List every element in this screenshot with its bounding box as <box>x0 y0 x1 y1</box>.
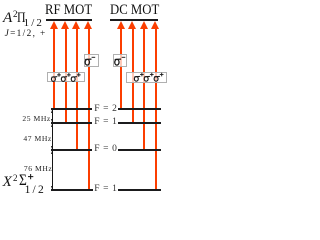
RF laser arrow 1 head <box>50 21 58 29</box>
ground level F=1 lower right segment <box>118 189 161 191</box>
DC laser arrow 2 shaft (to F=1 upper) <box>132 27 134 123</box>
ground level F=1 upper left segment <box>51 122 92 124</box>
RF laser arrow 3 shaft (to F=0) <box>76 27 78 150</box>
47 MHz label <box>5 135 52 143</box>
DC MOT header <box>110 2 159 17</box>
RF laser arrow 1 shaft (to F=2) <box>53 27 55 109</box>
J quantum number label <box>5 30 47 39</box>
ground level F=0 right segment <box>118 149 161 151</box>
label F=2 <box>94 105 117 115</box>
25 MHz label <box>4 115 51 123</box>
RF sigma-minus polarization box <box>84 54 99 67</box>
76 MHz splitting double arrow <box>52 151 53 189</box>
excited state label A 2Pi 1/2 <box>3 10 12 25</box>
label F=1 lower <box>94 185 117 195</box>
ground level F=2 left segment <box>51 108 92 110</box>
DC laser arrow 4 head <box>151 21 159 29</box>
RF laser arrow 4 head <box>84 21 92 29</box>
excited level line (DC) <box>110 19 158 21</box>
RF laser arrow 2 shaft (to F=1 upper) <box>65 27 67 123</box>
label F=0 <box>94 145 117 155</box>
47 MHz splitting double arrow <box>52 124 53 149</box>
DC laser arrow 3 shaft (to F=0) <box>143 27 145 150</box>
DC laser arrow 1 head <box>117 21 125 29</box>
ground state label X 2Sigma+ 1/2 <box>3 174 12 189</box>
25 MHz splitting double arrow <box>52 110 53 122</box>
RF laser arrow 3 head <box>72 21 80 29</box>
76 MHz label <box>6 165 53 173</box>
DC laser arrow 4 shaft (to F=1 lower) <box>155 27 157 189</box>
RF laser arrow 4 shaft (to F=1 lower) <box>88 27 90 189</box>
RF sigma-plus polarization box <box>47 72 86 83</box>
DC sigma-minus polarization box <box>113 54 127 67</box>
DC laser arrow 2 head <box>128 21 136 29</box>
ground level F=1 lower left segment <box>51 189 93 191</box>
DC laser arrow 1 shaft (to F=2) <box>120 27 122 109</box>
excited level line (RF) <box>46 19 93 21</box>
ground level F=1 upper right segment <box>118 122 161 124</box>
ground level F=0 left segment <box>51 149 92 151</box>
RF MOT header <box>45 2 92 17</box>
DC laser arrow 3 head <box>140 21 148 29</box>
label F=1 upper <box>94 118 117 128</box>
ground level F=2 right segment <box>118 108 161 110</box>
DC sigma-plus polarization box <box>126 72 167 83</box>
RF laser arrow 2 head <box>61 21 69 29</box>
